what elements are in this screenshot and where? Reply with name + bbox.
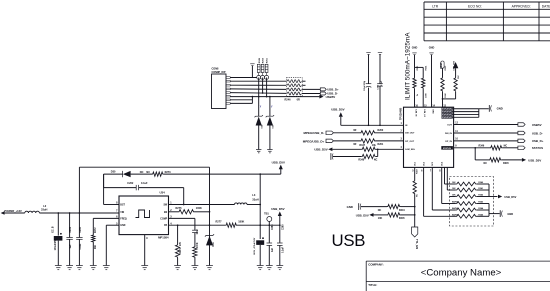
svg-text:3: 3 — [401, 139, 403, 141]
svg-text:NC: NC — [504, 144, 508, 147]
svg-text:GND: GND — [412, 46, 418, 49]
svg-text:27K: 27K — [180, 241, 182, 246]
svg-text:7: 7 — [430, 170, 432, 172]
resistor R346 status — [454, 144, 544, 150]
resistor R334 — [422, 65, 428, 107]
network resistor R344 — [450, 207, 490, 212]
diode D30 — [104, 171, 152, 178]
wire CON8 row4 to ferrite — [230, 88, 286, 91]
wire pin7 to network — [432, 167, 449, 210]
network resistor R341 — [450, 187, 490, 192]
resistor R261 — [353, 139, 403, 146]
svg-text:0R: 0R — [297, 99, 300, 102]
network resistor R342 — [450, 194, 490, 199]
svg-text:10K: 10K — [378, 217, 383, 220]
svg-text:GND: GND — [507, 212, 513, 216]
wire VIN rail to U34 — [79, 212, 119, 214]
svg-text:MPEG/USB_D+: MPEG/USB_D+ — [303, 139, 325, 143]
network resistor R343 — [450, 201, 490, 206]
svg-text:33uH: 33uH — [41, 208, 47, 212]
svg-text:NC: NC — [374, 159, 378, 162]
capacitor C286 — [266, 224, 274, 270]
svg-text:USB_D5V: USB_D5V — [314, 148, 327, 152]
svg-text:R273: R273 — [165, 171, 172, 174]
svg-text:y: y — [271, 105, 273, 108]
svg-text:EN: EN — [164, 212, 168, 214]
svg-text:R261: R261 — [378, 143, 384, 146]
svg-text:CON8: CON8 — [212, 67, 220, 70]
svg-text:180K: 180K — [238, 221, 244, 224]
svg-text:GND: GND — [429, 46, 435, 49]
svg-text:OC4: OC4 — [441, 161, 444, 166]
power switch U35 TPS2046B — [399, 104, 458, 172]
svg-text:6: 6 — [421, 170, 423, 172]
svg-text:USB_D-: USB_D- — [532, 131, 543, 135]
svg-text:R251: R251 — [267, 57, 269, 63]
svg-text:R272: R272 — [95, 227, 97, 233]
svg-text:C262: C262 — [127, 182, 134, 185]
svg-text:U34: U34 — [160, 191, 166, 195]
svg-text:C284: C284 — [79, 226, 82, 232]
CON8 pin stubs — [226, 77, 230, 105]
svg-text:C300: C300 — [378, 84, 380, 90]
net tag USB_D- — [302, 92, 338, 96]
svg-text:TTL_EN: TTL_EN — [415, 239, 419, 249]
svg-text:10nF: 10nF — [197, 229, 199, 235]
net arrow USB_D5V output top — [260, 161, 285, 175]
wire aux rows to network — [445, 167, 450, 190]
svg-text:NC: NC — [146, 171, 150, 174]
svg-text:STATUS: STATUS — [532, 146, 543, 150]
network resistor R340 — [450, 181, 490, 186]
wire output node vertical — [259, 173, 261, 239]
jumpers R249 R250 R251 with pads — [257, 57, 269, 79]
resistor R260 — [353, 129, 403, 135]
svg-text:LTR: LTR — [432, 5, 439, 9]
svg-text:10K: 10K — [458, 75, 460, 79]
test point TB1 — [264, 213, 272, 243]
svg-text:0.1uF: 0.1uF — [80, 243, 82, 250]
svg-text:DP_IN: DP_IN — [445, 141, 452, 143]
svg-text:R250: R250 — [263, 57, 265, 63]
svg-text:USB_D5V: USB_D5V — [271, 207, 284, 211]
svg-text:y: y — [260, 105, 262, 108]
network right bus upper — [489, 184, 517, 199]
power input POWER_+12V — [1, 209, 25, 215]
zener D31 — [205, 211, 215, 270]
svg-text:C281: C281 — [70, 226, 72, 232]
svg-text:NC: NC — [140, 171, 144, 174]
inductor L3 — [169, 193, 261, 205]
svg-text:C286: C286 — [272, 224, 274, 230]
resistor R344 — [387, 204, 416, 211]
svg-text:TITLE:: TITLE: — [368, 283, 377, 287]
svg-text:BCH_470uF/16V: BCH_470uF/16V — [253, 237, 256, 254]
net tag USB_D- out — [454, 131, 543, 135]
svg-text:FREQ: FREQ — [120, 218, 127, 220]
net arrow USB5V — [319, 95, 335, 99]
svg-text:0.1uF: 0.1uF — [381, 80, 383, 86]
gnd tag at pad — [489, 105, 503, 112]
svg-text:1: 1 — [401, 123, 403, 125]
svg-text:<Company Name>: <Company Name> — [421, 268, 502, 279]
svg-text:USB_D5V: USB_D5V — [356, 213, 369, 217]
svg-text:DATE:: DATE: — [542, 5, 550, 9]
capacitor C284 — [76, 212, 83, 270]
svg-text:10K: 10K — [452, 195, 456, 197]
capacitor C281 — [66, 212, 73, 270]
wire pin8 to network — [442, 167, 450, 203]
resistor R275 enable — [169, 207, 210, 214]
capacitor C283 comp network — [169, 218, 199, 246]
svg-text:4: 4 — [401, 146, 403, 149]
resistor R345 status pull — [474, 147, 541, 165]
svg-text:1uF: 1uF — [70, 244, 72, 249]
svg-text:ILIM_SEL: ILIM_SEL — [405, 149, 416, 151]
svg-text:ILIMIT 500mA~1925mA: ILIMIT 500mA~1925mA — [404, 32, 411, 100]
wire CON8 pin1 row with shield gnd — [230, 64, 257, 78]
svg-text:0R: 0R — [353, 143, 356, 146]
svg-text:100K: 100K — [445, 93, 447, 98]
svg-text:OC3: OC3 — [432, 161, 434, 166]
svg-text:APPROVED:: APPROVED: — [512, 5, 531, 9]
svg-text:R345: R345 — [503, 162, 509, 165]
svg-text:10: 10 — [455, 139, 458, 141]
revision table — [424, 2, 550, 41]
svg-text:ILIM_HI: ILIM_HI — [414, 109, 416, 117]
svg-text:0R: 0R — [353, 129, 356, 132]
svg-text:USB_D5V: USB_D5V — [331, 108, 344, 112]
svg-text:D29: D29 — [273, 124, 275, 129]
svg-text:USB5V: USB5V — [326, 95, 336, 99]
net tag TTL_EN — [412, 227, 420, 249]
svg-text:USB_D5V: USB_D5V — [272, 161, 285, 165]
wire ferrite row1 stub — [302, 80, 305, 82]
gnd flag pin14 — [429, 46, 435, 107]
svg-text:9: 9 — [146, 237, 148, 240]
connector CON8 — [212, 67, 227, 108]
wire CON8 row2 to ferrite — [230, 80, 286, 82]
svg-text:7: 7 — [116, 209, 118, 212]
svg-text:C285: C285 — [282, 224, 284, 230]
svg-text:ILIM_LO: ILIM_LO — [423, 109, 425, 117]
svg-text:12: 12 — [455, 122, 458, 124]
svg-text:10K: 10K — [452, 182, 456, 184]
resistor R276 comp network — [192, 242, 199, 270]
resistor R347 ttl chain — [413, 167, 419, 227]
svg-text:STATUS: STATUS — [443, 147, 452, 150]
svg-text:COMPANY:: COMPANY: — [368, 263, 383, 267]
svg-text:11: 11 — [455, 131, 458, 133]
svg-text:9: 9 — [455, 146, 457, 148]
svg-text:8: 8 — [439, 170, 441, 172]
svg-text:91K: 91K — [95, 244, 97, 249]
wire U34 gnd pin — [103, 225, 119, 270]
wire CON8 row3 to ferrite — [230, 84, 286, 86]
svg-text:GND: GND — [347, 205, 353, 209]
net arrow USB_D5V to switch IN — [331, 108, 403, 126]
svg-text:R275: R275 — [176, 207, 183, 210]
svg-text:FB: FB — [164, 225, 167, 227]
resistor R331 — [413, 65, 419, 107]
wire CON8 rows 7 8 shield — [230, 96, 253, 104]
svg-text:R277: R277 — [216, 221, 223, 224]
resistor R333 — [441, 65, 447, 107]
svg-text:R249: R249 — [258, 57, 261, 63]
svg-text:CONNP_DIP: CONNP_DIP — [212, 71, 226, 74]
capacitor C287 bulk output — [253, 237, 264, 270]
svg-text:0.1uF: 0.1uF — [282, 246, 284, 253]
net tag MPEG/USB_D+ — [303, 139, 360, 143]
svg-text:10k: 10k — [372, 144, 377, 147]
svg-text:GND: GND — [120, 225, 125, 227]
svg-text:DM_OUT: DM_OUT — [405, 133, 415, 135]
svg-text:NC: NC — [417, 194, 419, 197]
wire CON8 row6 VBUS — [230, 78, 319, 98]
svg-text:R348: R348 — [358, 159, 364, 162]
U34 pad pin 9 — [141, 235, 148, 270]
svg-text:100K: 100K — [196, 207, 202, 210]
svg-text:IN: IN — [405, 125, 408, 127]
svg-text:100uF/25V: 100uF/25V — [55, 239, 57, 251]
svg-text:USB_D5V: USB_D5V — [504, 195, 516, 199]
svg-text:D31: D31 — [213, 242, 215, 247]
network right bus lower — [489, 204, 513, 218]
net tag USB_D+ out — [454, 139, 544, 143]
svg-text:BST: BST — [120, 205, 125, 207]
svg-text:ECO NO:: ECO NO: — [468, 5, 482, 9]
svg-text:R333: R333 — [445, 65, 447, 71]
svg-text:L3: L3 — [252, 193, 256, 197]
svg-text:OC1: OC1 — [415, 161, 417, 166]
connector pin PRST — [440, 61, 444, 77]
svg-text:7k: 7k — [417, 93, 419, 96]
svg-text:L2: L2 — [43, 204, 47, 208]
resistor R335 — [442, 75, 460, 100]
TVS diode D28 — [255, 78, 264, 153]
capacitor C300 on IN rail — [377, 53, 383, 127]
svg-text:MPEG/USB_D-: MPEG/USB_D- — [303, 131, 324, 135]
svg-text:GND: GND — [497, 107, 503, 111]
svg-text:0.1uF: 0.1uF — [141, 182, 148, 185]
svg-text:D28: D28 — [261, 124, 263, 129]
resistor network box — [450, 177, 494, 227]
title block — [366, 261, 550, 291]
svg-text:SW: SW — [163, 205, 168, 207]
svg-text:5: 5 — [412, 170, 414, 172]
svg-text:100K: 100K — [197, 242, 199, 248]
svg-text:GND: GND — [431, 109, 433, 114]
wire pin6 to network — [424, 167, 450, 216]
gnd bracket row R344 — [347, 203, 387, 212]
net arrow USB_D5V ilim — [314, 147, 361, 151]
resistor R347 ilim — [359, 144, 403, 152]
svg-text:R334: R334 — [425, 65, 428, 71]
svg-text:VIN: VIN — [120, 212, 124, 214]
svg-text:OUT: OUT — [447, 124, 452, 126]
svg-text:TPS2046B: TPS2046B — [399, 108, 402, 120]
thermal pad block — [442, 108, 489, 119]
resistor R273 — [152, 171, 260, 176]
svg-text:100uF/25V: 100uF/25V — [364, 80, 366, 91]
inductor L2 — [25, 204, 119, 213]
svg-text:R331: R331 — [417, 65, 419, 71]
net arrow USB_D5V at output caps — [271, 207, 284, 243]
svg-text:OC2: OC2 — [424, 161, 426, 166]
wire CON8 row5 to ferrite — [230, 78, 286, 94]
ferrite bead array R246 — [285, 78, 303, 102]
resistor R271 freq set — [90, 218, 119, 269]
TVS diode D29 — [266, 96, 275, 153]
svg-text:USB_D5V: USB_D5V — [528, 158, 541, 162]
svg-text:D30: D30 — [111, 171, 116, 174]
svg-text:USB: USB — [332, 231, 366, 250]
net tag USB_D+ — [302, 88, 339, 92]
svg-text:2: 2 — [401, 131, 403, 133]
svg-text:R344: R344 — [399, 209, 405, 212]
net tag USB5V out — [454, 123, 542, 127]
svg-text:USB5V: USB5V — [532, 123, 542, 127]
resistor R277 feedback — [169, 221, 280, 228]
svg-text:USB_D+: USB_D+ — [532, 139, 544, 143]
svg-text:10K: 10K — [452, 188, 456, 190]
net tag MPEG/USB_D- — [303, 131, 360, 135]
wire VIN-to-EN top line — [79, 167, 209, 265]
svg-text:1uF: 1uF — [272, 247, 274, 252]
svg-text:COMP: COMP — [160, 218, 167, 220]
svg-text:100K: 100K — [426, 93, 428, 98]
svg-text:R347: R347 — [359, 144, 365, 147]
svg-text:TB1: TB1 — [264, 213, 269, 216]
capacitor C297 on IN rail — [364, 53, 371, 127]
capacitor C285 — [276, 224, 284, 270]
svg-text:R274: R274 — [179, 247, 182, 253]
svg-text:DM_IN: DM_IN — [445, 133, 452, 135]
wire bootstrap left vertical — [104, 174, 119, 204]
svg-text:EC_B: EC_B — [53, 226, 55, 232]
svg-text:DP_OUT: DP_OUT — [405, 141, 415, 143]
svg-text:NC: NC — [378, 209, 382, 212]
svg-text:R246: R246 — [285, 99, 292, 102]
svg-text:33uH: 33uH — [252, 197, 258, 201]
capacitor C280 input electrolytic — [53, 212, 63, 270]
capacitor C262 bootstrap — [104, 174, 184, 204]
net arrow USB_D5V row R345b — [356, 213, 387, 220]
regulator U34 MP1584 — [116, 191, 172, 240]
svg-text:R346: R346 — [479, 144, 485, 147]
resistor R345b — [387, 213, 416, 220]
network resistor R345 — [450, 213, 490, 218]
resistor R348 ilim NC — [331, 148, 379, 161]
wire ferrite row2 stub — [302, 84, 305, 86]
svg-text:R345: R345 — [399, 217, 405, 220]
svg-text:MP1584: MP1584 — [158, 236, 169, 240]
svg-text:R260: R260 — [378, 129, 384, 132]
resistor R274 comp lower — [174, 224, 182, 269]
svg-text:NC: NC — [484, 162, 488, 165]
svg-text:R347: R347 — [416, 168, 419, 174]
pullup arrow USB_D5V PRST — [453, 60, 458, 77]
gnd flag above R331 — [412, 46, 423, 67]
